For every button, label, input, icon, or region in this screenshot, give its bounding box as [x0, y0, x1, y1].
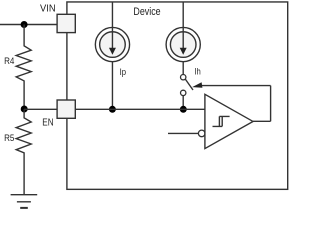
resistor R4 [16, 25, 31, 110]
svg-text:Device: Device [133, 6, 160, 18]
switch blade [185, 79, 193, 90]
node: junction R4 / R5 / EN wire [21, 106, 28, 113]
wire: Ip bottom to EN row [111, 62, 113, 109]
svg-text:VIN: VIN [40, 3, 56, 14]
wire: Ih bottom to switch [182, 62, 184, 75]
op-amp U1 (hysteresis comparator) [205, 94, 253, 148]
wire: Ip branch from top border through source [111, 2, 113, 50]
arrowhead of Ih current direction [180, 48, 187, 55]
wire: Ih branch from top border through source [182, 2, 184, 50]
current source Ip (outer circle) [95, 27, 129, 61]
wire: comparator output [253, 120, 271, 122]
current source Ih (outer circle) [166, 27, 200, 61]
arrowhead of feedback control pointing at switch [192, 82, 202, 87]
hysteresis symbol [213, 116, 230, 126]
wire: feedback top horizontal to switch [200, 85, 271, 87]
switch lower contact [181, 90, 186, 95]
pin VIN (terminal square) [57, 14, 75, 32]
ground [11, 195, 38, 202]
inverting input bubble [198, 130, 205, 137]
svg-text:Ip: Ip [120, 66, 126, 77]
wire: feedback right vertical [270, 86, 272, 122]
svg-text:R4: R4 [4, 56, 14, 66]
device box (Device outline) [67, 2, 288, 189]
node: junction Ip / EN row [109, 106, 116, 113]
switch upper contact [181, 75, 186, 80]
node: junction VIN rail / R4 [21, 21, 28, 28]
wire: reference stub to comparator - input [168, 132, 198, 134]
current source Ip (inner circle) [100, 32, 126, 58]
wire: EN row from divider tap to EN pin [24, 108, 57, 110]
resistor R5 [16, 109, 31, 194]
svg-text:Ih: Ih [195, 66, 201, 77]
node: junction switch / EN row [180, 106, 187, 113]
wire: switch lower contact to EN row [182, 96, 184, 110]
svg-text:EN: EN [42, 117, 53, 128]
current source Ih (inner circle) [170, 32, 196, 58]
wire: EN row inside device to comparator + input [75, 108, 205, 110]
wire: VIN input rail from left edge [0, 24, 57, 26]
svg-text:R5: R5 [4, 133, 14, 143]
pin EN (terminal square) [57, 100, 75, 118]
arrowhead of Ip current direction [109, 48, 116, 55]
